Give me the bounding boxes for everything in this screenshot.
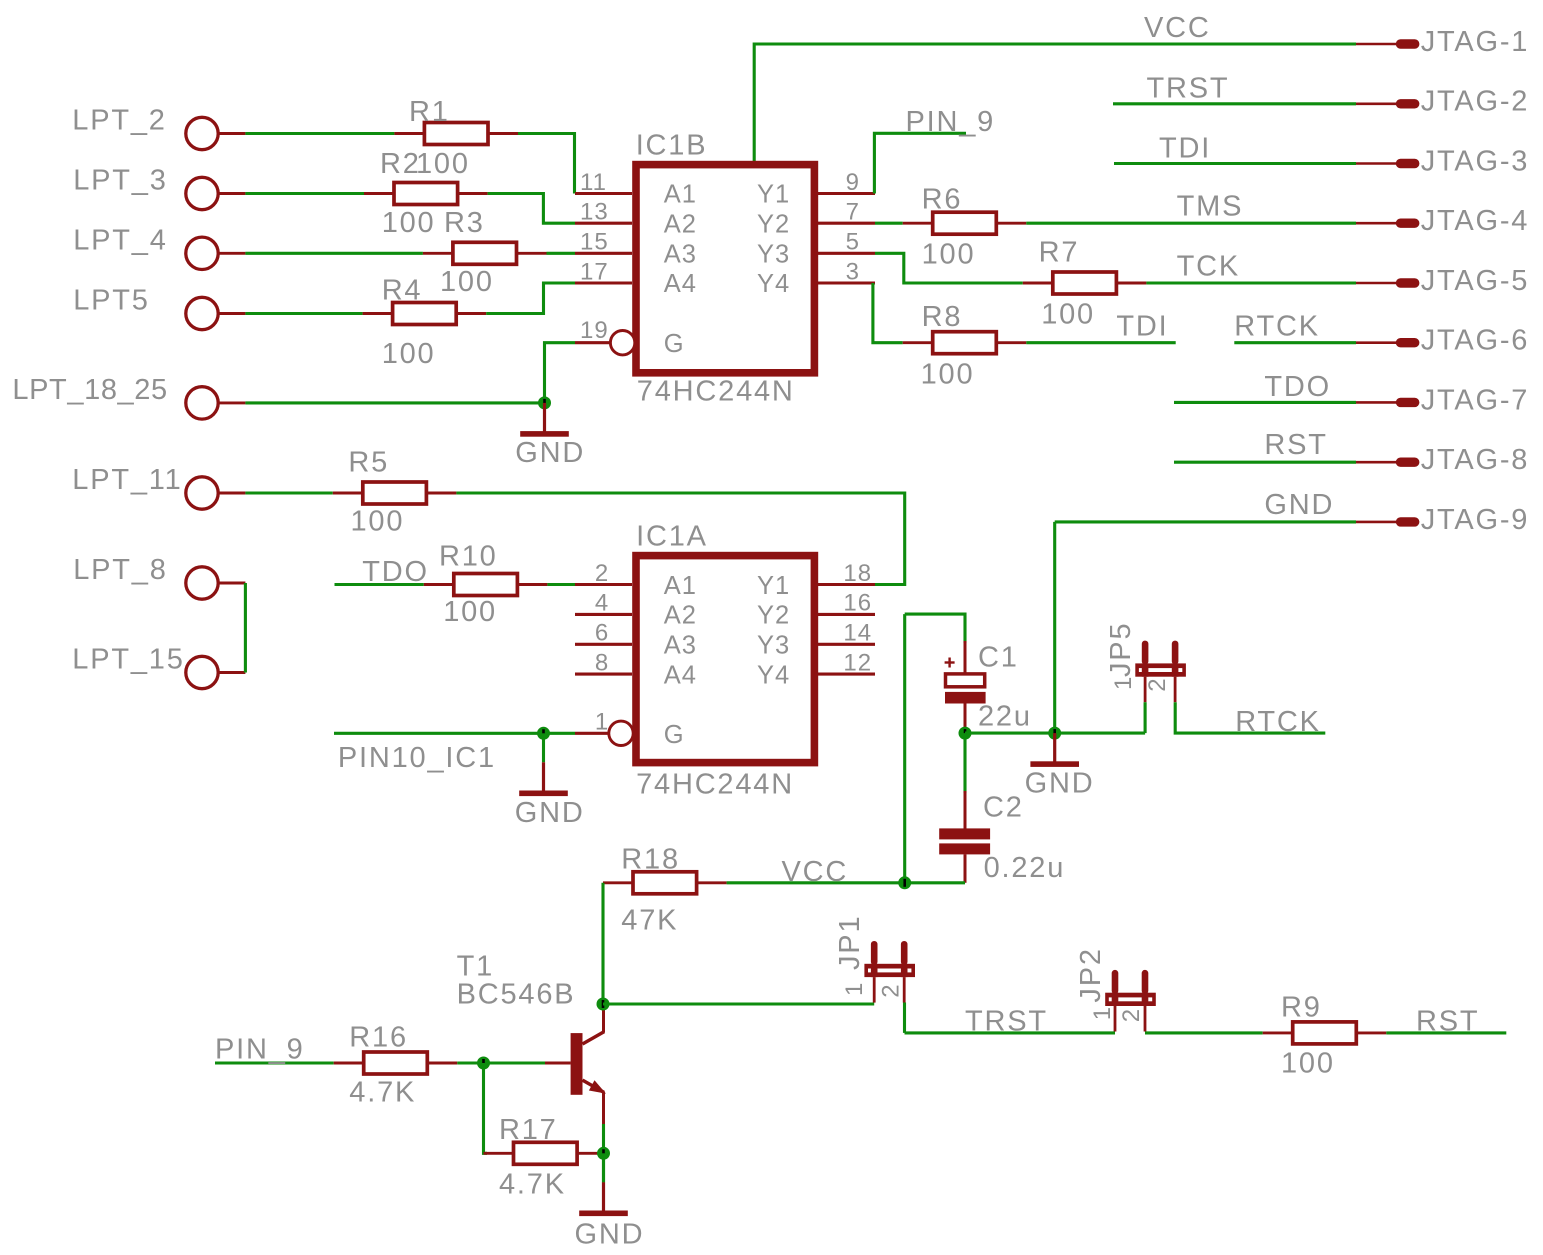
wire LPT_8 to LPT_15 bbox=[244, 583, 247, 673]
wire collector node to JP1 pin1 bbox=[603, 1002, 874, 1005]
connector pad JTAG-8 bbox=[1356, 458, 1419, 467]
resistor R6 bbox=[903, 212, 1027, 234]
svg-text:JP1: JP1 bbox=[834, 915, 866, 970]
svg-text:11: 11 bbox=[580, 169, 607, 196]
wire JP5 pin1 down to GND rail bbox=[1144, 702, 1147, 733]
connector pin LPT_4 bbox=[186, 237, 246, 269]
svg-text:R8: R8 bbox=[922, 301, 963, 333]
ground bbox=[520, 403, 569, 437]
svg-text:TRST: TRST bbox=[965, 1006, 1048, 1038]
svg-text:1: 1 bbox=[1110, 676, 1137, 690]
svg-text:A3: A3 bbox=[664, 240, 697, 268]
svg-text:4.7K: 4.7K bbox=[499, 1169, 566, 1201]
svg-text:8: 8 bbox=[595, 649, 609, 676]
svg-text:A4: A4 bbox=[664, 270, 697, 298]
capacitor C1 (polarized) bbox=[945, 641, 986, 733]
wire PIN10_IC1 to IC1A pin 1 bbox=[334, 732, 575, 735]
junction at 603,1004 bbox=[597, 998, 610, 1011]
wire IC1B pin9 to PIN_9 label bbox=[874, 133, 966, 193]
svg-text:C2: C2 bbox=[983, 792, 1024, 824]
svg-text:PIN_9: PIN_9 bbox=[906, 106, 996, 138]
resistor R5 bbox=[333, 482, 457, 504]
svg-text:TMS: TMS bbox=[1177, 191, 1244, 223]
wire R3 to IC1B pin 15 bbox=[547, 252, 576, 255]
svg-text:TCK: TCK bbox=[1177, 251, 1240, 283]
wire JP2 pin2 to R9 bbox=[1145, 1031, 1263, 1034]
svg-text:9: 9 bbox=[846, 169, 860, 196]
svg-text:2: 2 bbox=[595, 560, 609, 587]
svg-text:JTAG-9: JTAG-9 bbox=[1421, 504, 1530, 536]
svg-text:74HC244N: 74HC244N bbox=[636, 769, 794, 801]
svg-text:RST: RST bbox=[1264, 429, 1327, 461]
IC1A gate labels bbox=[664, 572, 791, 749]
svg-text:22u: 22u bbox=[978, 701, 1032, 733]
connector pad JTAG-3 bbox=[1356, 159, 1419, 168]
resistor R8 bbox=[903, 332, 1027, 354]
svg-text:A1: A1 bbox=[664, 572, 697, 600]
junction at 483.5,1063 bbox=[477, 1057, 490, 1070]
transistor T1 BC546B bbox=[545, 1006, 606, 1124]
wire IC1B pin5 to R7 bbox=[875, 253, 1023, 283]
resistor R17 bbox=[484, 1142, 608, 1164]
ground bbox=[519, 733, 568, 796]
wire R18 left down to collector node bbox=[601, 883, 604, 1004]
wire TRST to JTAG-2 bbox=[1113, 102, 1356, 105]
wire R7 to JTAG-5 TCK bbox=[1146, 281, 1356, 284]
svg-text:Y4: Y4 bbox=[757, 270, 790, 298]
wire LPT_2 to R1 bbox=[245, 132, 394, 135]
wire R1 to IC1B pin 11 bbox=[518, 134, 575, 194]
ground bbox=[1030, 733, 1079, 767]
svg-text:Y3: Y3 bbox=[757, 240, 790, 268]
wire R2 to IC1B pin 13 bbox=[488, 194, 575, 224]
wire RST to JTAG-8 bbox=[1174, 461, 1356, 464]
svg-text:GND: GND bbox=[1264, 489, 1334, 521]
wire RTCK to JTAG-6 bbox=[1234, 341, 1356, 344]
wire R8 to TDI label bbox=[1026, 341, 1175, 344]
connector pad JTAG-4 bbox=[1356, 219, 1419, 228]
resistor R2 bbox=[364, 183, 488, 205]
wire R4 to IC1B pin 17 bbox=[486, 283, 575, 314]
junction at 543.5,733.3 bbox=[537, 727, 550, 740]
svg-text:VCC: VCC bbox=[782, 856, 849, 888]
svg-text:JTAG-3: JTAG-3 bbox=[1421, 145, 1530, 177]
svg-text:100: 100 bbox=[416, 148, 470, 180]
svg-text:12: 12 bbox=[843, 649, 872, 676]
connector pin LPT_8 bbox=[186, 567, 246, 599]
svg-text:3: 3 bbox=[846, 258, 860, 285]
svg-text:JTAG-2: JTAG-2 bbox=[1421, 86, 1530, 118]
svg-text:Y1: Y1 bbox=[757, 181, 790, 209]
svg-text:A3: A3 bbox=[664, 632, 697, 660]
svg-text:IC1A: IC1A bbox=[636, 520, 708, 552]
wire VCC vertical to C1 top bbox=[905, 614, 965, 643]
svg-text:18: 18 bbox=[843, 560, 872, 587]
jumper JP1 bbox=[864, 941, 915, 1003]
svg-text:TDO: TDO bbox=[362, 556, 429, 588]
ground bbox=[579, 1153, 628, 1216]
svg-text:2: 2 bbox=[1118, 1008, 1145, 1022]
resistor R10 bbox=[424, 574, 548, 596]
jumper JP5 bbox=[1135, 641, 1186, 703]
wire LPT_11 to R5 bbox=[245, 491, 332, 494]
svg-text:RTCK: RTCK bbox=[1234, 310, 1320, 342]
svg-text:47K: 47K bbox=[621, 904, 678, 936]
wire VCC net to JTAG-1 bbox=[754, 44, 1356, 161]
svg-text:100: 100 bbox=[443, 596, 497, 628]
svg-text:19: 19 bbox=[580, 317, 609, 344]
svg-text:TRST: TRST bbox=[1147, 73, 1230, 105]
svg-text:JTAG-8: JTAG-8 bbox=[1421, 444, 1530, 476]
svg-text:Y2: Y2 bbox=[757, 210, 790, 238]
svg-text:R5: R5 bbox=[348, 447, 389, 479]
svg-text:100: 100 bbox=[1281, 1047, 1335, 1079]
svg-text:Y4: Y4 bbox=[757, 661, 790, 689]
junction at 603.5,1153.3 bbox=[597, 1147, 610, 1160]
svg-text:17: 17 bbox=[580, 258, 609, 285]
junction at 904.7,882.8 bbox=[898, 876, 911, 889]
svg-text:C1: C1 bbox=[978, 642, 1019, 674]
svg-text:JTAG-6: JTAG-6 bbox=[1421, 325, 1530, 357]
svg-text:16: 16 bbox=[843, 590, 872, 617]
svg-text:LPT_18_25: LPT_18_25 bbox=[12, 374, 167, 406]
wire LPT5 to R4 bbox=[245, 312, 362, 315]
connector pad JTAG-1 bbox=[1356, 39, 1419, 48]
svg-text:15: 15 bbox=[580, 229, 609, 256]
svg-text:RTCK: RTCK bbox=[1235, 706, 1321, 738]
svg-text:1: 1 bbox=[1089, 1006, 1116, 1020]
wire TDI to JTAG-3 bbox=[1114, 162, 1356, 165]
svg-text:JTAG-5: JTAG-5 bbox=[1421, 265, 1530, 297]
resistor R3 bbox=[423, 242, 547, 264]
svg-text:IC1B: IC1B bbox=[636, 130, 708, 162]
wire GND junction down to C2 bbox=[963, 733, 966, 793]
svg-text:100: 100 bbox=[440, 266, 494, 298]
svg-text:14: 14 bbox=[843, 620, 872, 647]
svg-text:100: 100 bbox=[921, 359, 975, 391]
svg-text:R3: R3 bbox=[444, 207, 485, 239]
wire R18 to VCC junction and C2 bbox=[727, 881, 965, 884]
connector pad JTAG-6 bbox=[1356, 338, 1419, 347]
svg-text:A2: A2 bbox=[664, 210, 697, 238]
svg-text:R9: R9 bbox=[1281, 992, 1322, 1024]
svg-text:0.22u: 0.22u bbox=[984, 852, 1066, 884]
svg-text:4.7K: 4.7K bbox=[349, 1077, 416, 1109]
svg-text:A2: A2 bbox=[664, 602, 697, 630]
wire IC1B pin7 to R6 bbox=[875, 222, 903, 225]
svg-text:VCC: VCC bbox=[1144, 12, 1211, 44]
wire LPT_3 to R2 bbox=[245, 192, 364, 195]
svg-text:13: 13 bbox=[580, 199, 609, 226]
svg-text:GND: GND bbox=[515, 437, 585, 469]
svg-text:1: 1 bbox=[595, 709, 609, 736]
svg-text:JP2: JP2 bbox=[1075, 947, 1107, 1002]
wire R6 to JTAG-4 TMS bbox=[1026, 222, 1356, 225]
svg-text:G: G bbox=[664, 721, 685, 749]
resistor R9 bbox=[1263, 1022, 1387, 1044]
connector pin LPT5 bbox=[186, 297, 246, 329]
wire LPT_4 to R3 bbox=[245, 252, 423, 255]
svg-text:JTAG-1: JTAG-1 bbox=[1421, 26, 1530, 58]
resistor R7 bbox=[1023, 272, 1147, 294]
connector pin LPT_18_25 bbox=[186, 387, 246, 419]
wire JP5 pin2 down and RTCK bbox=[1175, 702, 1325, 733]
svg-text:100: 100 bbox=[382, 338, 436, 370]
IC IC1A 74HC244N bbox=[575, 556, 875, 763]
svg-text:TDO: TDO bbox=[1264, 371, 1331, 403]
resistor R1 bbox=[394, 123, 518, 145]
svg-text:R10: R10 bbox=[439, 541, 498, 573]
connector pin LPT_3 bbox=[186, 177, 246, 209]
svg-text:PIN_9: PIN_9 bbox=[215, 1034, 305, 1066]
svg-text:A1: A1 bbox=[664, 181, 697, 209]
svg-text:74HC244N: 74HC244N bbox=[637, 376, 795, 408]
connector pin LPT_2 bbox=[186, 117, 246, 149]
jumper JP2 bbox=[1105, 970, 1156, 1032]
wire GND to JTAG-9 bbox=[1055, 520, 1356, 523]
wire R5 to IC1A pin 18 bbox=[456, 493, 904, 585]
wire GND vertical from JTAG-9 bbox=[1053, 522, 1056, 733]
svg-text:R4: R4 bbox=[382, 275, 423, 307]
svg-text:4: 4 bbox=[595, 590, 609, 617]
junction at 544.5,402.9 bbox=[538, 396, 551, 409]
svg-text:LPT_11: LPT_11 bbox=[72, 464, 182, 496]
svg-text:BC546B: BC546B bbox=[457, 978, 576, 1010]
svg-text:JTAG-4: JTAG-4 bbox=[1421, 205, 1530, 237]
svg-text:R7: R7 bbox=[1039, 236, 1080, 268]
svg-text:R1: R1 bbox=[409, 96, 450, 128]
wire R10 to IC1A pin 2 bbox=[547, 583, 575, 586]
svg-text:7: 7 bbox=[846, 199, 860, 226]
svg-text:G: G bbox=[664, 330, 685, 358]
svg-text:TDI: TDI bbox=[1116, 310, 1168, 342]
svg-text:GND: GND bbox=[1025, 768, 1095, 800]
resistor R16 bbox=[334, 1052, 458, 1074]
svg-text:100: 100 bbox=[382, 207, 436, 239]
svg-text:LPT_8: LPT_8 bbox=[73, 554, 167, 586]
svg-text:R2: R2 bbox=[380, 148, 421, 180]
wire TRST JP1 to JP2 bbox=[905, 1031, 1116, 1034]
wire VCC vertical down to VCC rail bbox=[903, 614, 906, 883]
wire JP1 pin2 down to TRST bbox=[903, 1003, 906, 1033]
svg-text:Y2: Y2 bbox=[757, 602, 790, 630]
svg-text:R16: R16 bbox=[349, 1022, 408, 1054]
svg-text:6: 6 bbox=[595, 620, 609, 647]
svg-text:JP5: JP5 bbox=[1105, 622, 1137, 677]
svg-text:GND: GND bbox=[575, 1219, 645, 1251]
svg-text:RST: RST bbox=[1416, 1006, 1479, 1038]
svg-text:R6: R6 bbox=[922, 183, 963, 215]
svg-text:100: 100 bbox=[922, 238, 976, 270]
svg-text:LPT_3: LPT_3 bbox=[73, 164, 167, 196]
svg-text:100: 100 bbox=[351, 506, 405, 538]
svg-text:JTAG-7: JTAG-7 bbox=[1421, 384, 1530, 416]
svg-text:LPT_4: LPT_4 bbox=[73, 224, 167, 256]
wire LPT_18_25 to GND junction bbox=[245, 401, 544, 404]
svg-text:LPT_2: LPT_2 bbox=[72, 104, 166, 136]
IC1B gate labels bbox=[664, 181, 791, 359]
resistor R18 bbox=[603, 872, 727, 894]
wire T1 emitter down to GND bbox=[602, 1124, 605, 1182]
connector pad JTAG-5 bbox=[1356, 278, 1419, 287]
svg-text:2: 2 bbox=[878, 983, 905, 997]
connector pad JTAG-7 bbox=[1356, 398, 1419, 407]
svg-text:Y1: Y1 bbox=[757, 572, 790, 600]
svg-text:2: 2 bbox=[1144, 677, 1171, 691]
connector pin LPT_11 bbox=[186, 477, 246, 509]
connector pin LPT_15 bbox=[186, 656, 246, 688]
svg-text:A4: A4 bbox=[664, 661, 697, 689]
junction at 965,733.1 bbox=[959, 727, 972, 740]
svg-text:100: 100 bbox=[1041, 299, 1095, 331]
svg-text:LPT_15: LPT_15 bbox=[72, 644, 184, 676]
svg-text:5: 5 bbox=[846, 229, 860, 256]
wire TDO to JTAG-7 bbox=[1174, 401, 1356, 404]
svg-text:Y3: Y3 bbox=[757, 632, 790, 660]
capacitor C2 bbox=[939, 791, 990, 883]
junction at 1054.7,733.1 bbox=[1048, 727, 1061, 740]
svg-text:PIN10_IC1: PIN10_IC1 bbox=[338, 742, 496, 774]
wire base node down to R17 bbox=[484, 1063, 488, 1153]
wire IC1B pin3 to R8 bbox=[873, 283, 903, 343]
svg-text:R17: R17 bbox=[499, 1114, 558, 1146]
wire R16 to T1 base bbox=[457, 1061, 545, 1064]
wire PIN_9 to R16 bbox=[215, 1061, 334, 1064]
svg-text:TDI: TDI bbox=[1159, 133, 1211, 165]
svg-text:LPT5: LPT5 bbox=[73, 284, 150, 316]
svg-text:GND: GND bbox=[515, 797, 585, 829]
connector pad JTAG-9 bbox=[1356, 517, 1419, 526]
wire TDO to R10 bbox=[335, 583, 424, 586]
wire GND rail to JP5 bbox=[965, 732, 1145, 735]
connector pad JTAG-2 bbox=[1356, 99, 1419, 108]
wire R9 to RST bbox=[1386, 1031, 1506, 1034]
svg-text:R18: R18 bbox=[621, 844, 680, 876]
resistor R4 bbox=[363, 303, 487, 325]
IC IC1B 74HC244N bbox=[575, 165, 875, 373]
wire junction up to IC1B pin G bbox=[545, 343, 576, 403]
svg-text:1: 1 bbox=[841, 982, 868, 996]
